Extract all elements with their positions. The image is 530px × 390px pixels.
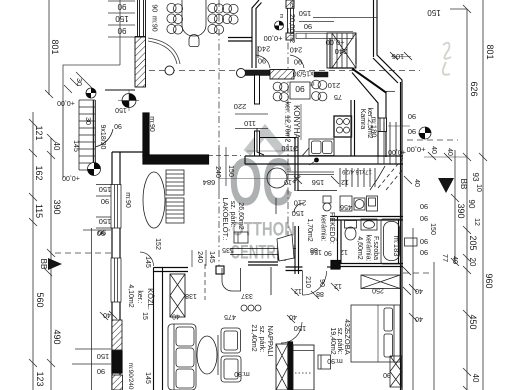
svg-text:123: 123: [35, 371, 45, 386]
svg-text:ker: 12,70m2: ker: 12,70m2: [284, 102, 291, 143]
svg-text:90: 90: [420, 202, 428, 211]
svg-text:75: 75: [334, 93, 342, 102]
svg-text:40: 40: [413, 179, 420, 187]
svg-text:560: 560: [35, 292, 45, 307]
svg-text:90: 90: [117, 26, 126, 35]
svg-text:4,60m2: 4,60m2: [356, 236, 363, 259]
svg-text:90: 90: [408, 127, 416, 136]
svg-text:156: 156: [312, 178, 325, 187]
svg-text:475: 475: [224, 313, 236, 320]
svg-text:Ø150: Ø150: [281, 144, 298, 151]
svg-text:90: 90: [117, 2, 126, 11]
svg-text:m: m: [278, 14, 284, 19]
svg-text:684: 684: [203, 178, 216, 187]
svg-text:40: 40: [430, 146, 437, 154]
svg-text:BB: BB: [39, 259, 48, 270]
svg-text:210: 210: [328, 81, 341, 90]
svg-text:20: 20: [468, 258, 477, 267]
svg-text:19,40m2: 19,40m2: [329, 327, 336, 354]
svg-text:150: 150: [429, 223, 436, 235]
svg-text:801: 801: [50, 39, 60, 54]
svg-text:kerámia:: kerámia:: [320, 215, 327, 242]
svg-text:626: 626: [469, 81, 479, 96]
svg-text:90: 90: [98, 228, 106, 237]
svg-text:4,10m2: 4,10m2: [127, 284, 134, 307]
svg-text:90: 90: [97, 367, 105, 376]
svg-text:150: 150: [99, 185, 112, 194]
svg-text:90: 90: [420, 248, 428, 257]
svg-text:m:90/240: m:90/240: [127, 362, 134, 389]
svg-text:432: 432: [343, 319, 350, 331]
svg-text:10: 10: [475, 184, 482, 192]
svg-text:150: 150: [97, 352, 110, 361]
svg-text:17x16,4/29: 17x16,4/29: [341, 168, 371, 174]
svg-text:40: 40: [415, 287, 423, 294]
svg-text:150: 150: [227, 165, 234, 177]
svg-text:12: 12: [334, 282, 342, 289]
svg-text:LAKÓELŐT.:: LAKÓELŐT.:: [221, 198, 230, 241]
svg-text:SZOBA: SZOBA: [343, 329, 352, 354]
svg-text:NAPPALI: NAPPALI: [266, 325, 275, 356]
svg-text:240: 240: [290, 46, 303, 55]
svg-text:90: 90: [324, 249, 332, 256]
svg-text:240: 240: [196, 251, 203, 263]
svg-text:KONYHA: KONYHA: [292, 105, 301, 139]
svg-text:152: 152: [154, 238, 161, 250]
svg-text:12: 12: [341, 178, 349, 185]
svg-text:40: 40: [289, 313, 297, 320]
svg-text:115: 115: [34, 204, 44, 218]
svg-text:88: 88: [316, 290, 324, 297]
svg-text:90: 90: [420, 237, 428, 246]
svg-text:90: 90: [294, 58, 302, 67]
svg-text:Kamra: Kamra: [359, 109, 366, 130]
svg-text:150: 150: [427, 8, 441, 17]
svg-text:240: 240: [214, 166, 221, 178]
svg-text:450: 450: [468, 314, 478, 329]
svg-text:m: m: [310, 80, 315, 86]
svg-text:210: 210: [294, 199, 307, 208]
svg-text:F.szoba: F.szoba: [372, 236, 379, 260]
svg-text:+0,00: +0,00: [264, 34, 283, 43]
svg-text:90: 90: [304, 22, 312, 31]
svg-text:m:90: m:90: [148, 116, 155, 132]
svg-text:21,40m2: 21,40m2: [250, 324, 257, 351]
svg-text:m:183: m:183: [392, 236, 401, 257]
svg-text:30: 30: [84, 117, 91, 125]
svg-text:F.EKEDŐ:: F.EKEDŐ:: [328, 212, 337, 244]
svg-text:+0,00: +0,00: [388, 148, 406, 155]
svg-text:m:180: m:180: [370, 117, 379, 138]
svg-text:456: 456: [340, 203, 352, 210]
svg-text:150: 150: [99, 217, 112, 226]
svg-text:960: 960: [484, 273, 494, 288]
svg-text:150: 150: [294, 324, 307, 333]
svg-text:40: 40: [471, 374, 480, 383]
svg-text:12: 12: [294, 287, 302, 294]
svg-text:801: 801: [485, 44, 495, 59]
svg-text:m:90: m:90: [124, 192, 131, 208]
svg-text:90: 90: [295, 84, 305, 94]
svg-text:12: 12: [340, 248, 348, 255]
svg-text:+0,00: +0,00: [62, 174, 80, 181]
svg-text:sz. párk:: sz. párk:: [336, 328, 343, 355]
svg-text:9x18/30: 9x18/30: [99, 125, 106, 150]
svg-text:ter: 20,00m2: ter: 20,00m2: [288, 1, 297, 43]
svg-text:150: 150: [299, 9, 312, 18]
svg-text:162: 162: [34, 165, 44, 180]
svg-text:+0,00: +0,00: [57, 99, 75, 106]
svg-text:490: 490: [52, 329, 62, 344]
svg-text:240: 240: [258, 45, 271, 54]
svg-text:4x15/30: 4x15/30: [292, 70, 317, 77]
svg-text:40: 40: [172, 313, 180, 320]
svg-text:337: 337: [241, 292, 253, 299]
svg-text:138: 138: [185, 292, 197, 299]
svg-text:90: 90: [383, 371, 391, 378]
svg-text:12: 12: [473, 218, 480, 226]
svg-text:30: 30: [75, 78, 82, 86]
svg-text:m:90: m:90: [234, 370, 250, 377]
svg-text:145: 145: [144, 256, 151, 268]
svg-text:240: 240: [335, 47, 348, 56]
svg-text:205: 205: [468, 235, 478, 250]
svg-text:sz. párk:: sz. párk:: [229, 201, 236, 228]
svg-text:210: 210: [304, 276, 311, 288]
svg-text:535: 535: [222, 246, 234, 253]
svg-text:26,60m2: 26,60m2: [237, 202, 244, 229]
svg-text:40: 40: [451, 256, 458, 264]
svg-text:145: 145: [208, 251, 215, 263]
svg-text:1,70m2: 1,70m2: [306, 218, 313, 241]
svg-text:145: 145: [144, 372, 151, 384]
svg-text:110: 110: [244, 119, 256, 128]
svg-text:KÖZL.: KÖZL.: [146, 288, 155, 310]
svg-text:390: 390: [456, 203, 466, 218]
svg-text:40: 40: [52, 142, 61, 151]
svg-text:ker.:: ker.:: [136, 290, 143, 303]
svg-text:+0,00: +0,00: [407, 145, 426, 154]
svg-text:145: 145: [72, 140, 79, 152]
svg-text:40: 40: [415, 315, 423, 322]
svg-text:90: 90: [101, 197, 109, 206]
svg-text:15: 15: [141, 312, 148, 320]
svg-text:90 m:90: 90 m:90: [151, 4, 158, 31]
svg-text:90: 90: [467, 200, 476, 209]
svg-text:40: 40: [446, 148, 453, 156]
svg-text:93: 93: [471, 173, 480, 182]
svg-text:150: 150: [115, 14, 129, 23]
svg-text:220: 220: [234, 102, 247, 111]
svg-text:86: 86: [310, 246, 318, 253]
svg-text:150: 150: [115, 106, 127, 113]
svg-text:90: 90: [258, 57, 266, 66]
svg-text:390: 390: [52, 199, 62, 214]
svg-text:121: 121: [34, 125, 44, 140]
svg-text:BB: BB: [459, 179, 468, 190]
svg-text:kerámia:: kerámia:: [365, 235, 372, 262]
svg-text:150: 150: [292, 209, 305, 218]
svg-text:sz. párk:: sz. párk:: [258, 326, 265, 353]
svg-text:250: 250: [372, 287, 384, 294]
svg-text:+0,00: +0,00: [326, 38, 345, 47]
svg-text:90: 90: [420, 214, 428, 223]
svg-text:77: 77: [441, 254, 450, 262]
svg-text:m:90: m:90: [327, 357, 343, 364]
svg-text:90: 90: [408, 112, 416, 121]
svg-text:90: 90: [114, 122, 122, 129]
